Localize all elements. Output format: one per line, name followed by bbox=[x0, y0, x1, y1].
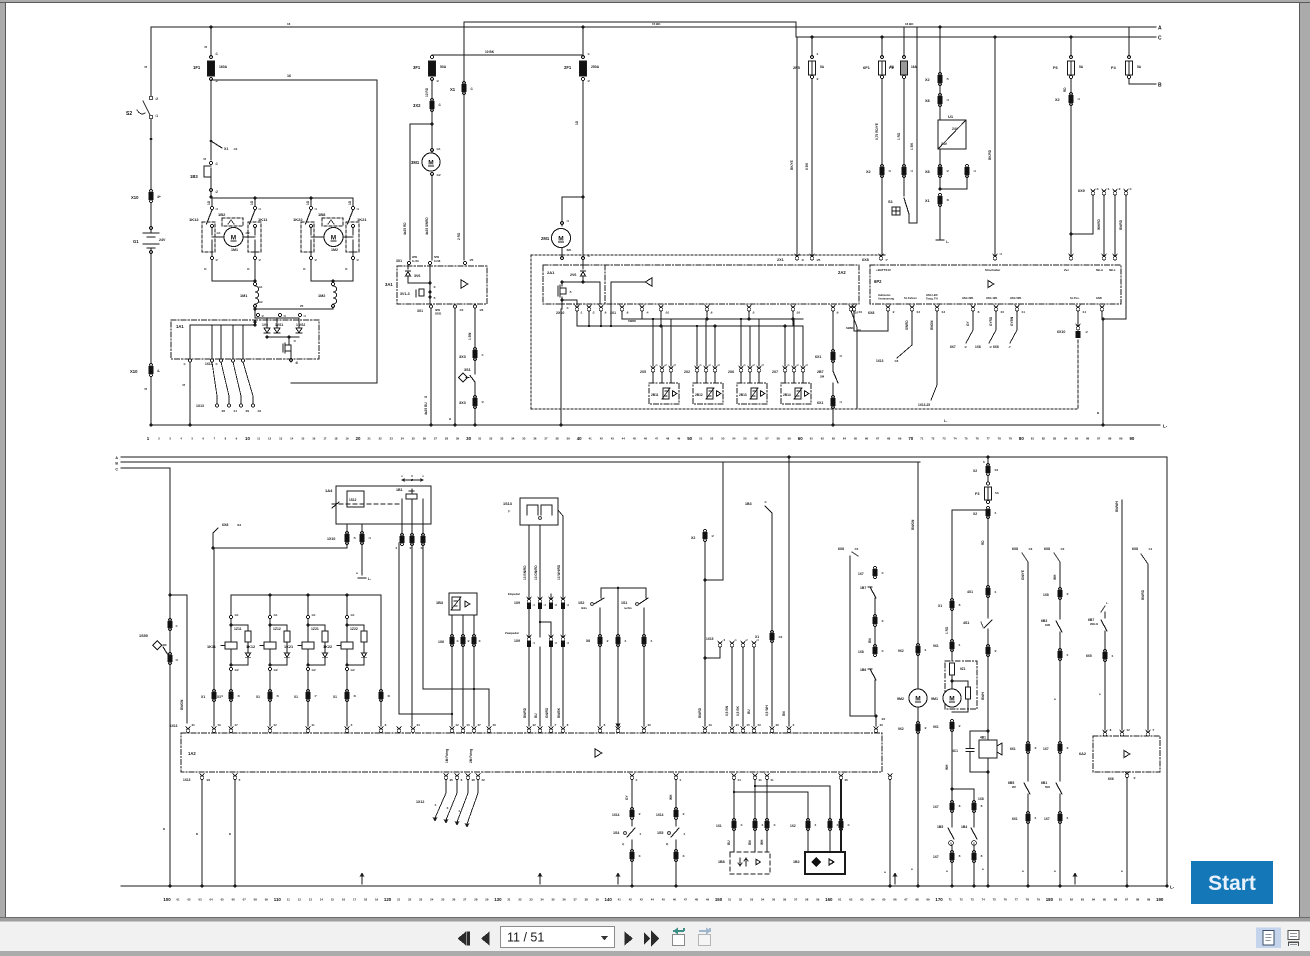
connector X2 :5 / X8 :4 column bbox=[925, 26, 949, 121]
svg-text:1K11: 1K11 bbox=[207, 645, 216, 649]
svg-text:45: 45 bbox=[662, 898, 666, 902]
svg-text::7: :7 bbox=[885, 258, 888, 262]
svg-text:RD: RD bbox=[981, 540, 985, 545]
svg-text:55: 55 bbox=[772, 898, 776, 902]
svg-text::9: :9 bbox=[801, 258, 804, 262]
svg-text:87: 87 bbox=[1097, 437, 1101, 441]
svg-text:M: M bbox=[558, 235, 563, 242]
svg-text:10 RD: 10 RD bbox=[425, 87, 429, 97]
svg-text:58: 58 bbox=[777, 437, 781, 441]
svg-text:4S1: 4S1 bbox=[963, 621, 969, 625]
box 1A4 with 1S12 and 1B1 bbox=[325, 486, 431, 524]
svg-text::2: :2 bbox=[1118, 187, 1121, 191]
svg-text:26: 26 bbox=[423, 437, 427, 441]
svg-text:11: 11 bbox=[287, 898, 290, 902]
diode 3V6 bbox=[405, 265, 420, 283]
svg-text::11: :11 bbox=[1021, 310, 1025, 314]
svg-text::19: :19 bbox=[217, 723, 221, 727]
svg-text:6X8: 6X8 bbox=[838, 547, 844, 551]
connector 4X1 :1 bbox=[967, 585, 997, 618]
svg-text:3V1-3: 3V1-3 bbox=[400, 292, 410, 296]
svg-text::4: :4 bbox=[881, 649, 884, 653]
svg-text:BU: BU bbox=[747, 709, 751, 714]
svg-text:L-: L- bbox=[1163, 424, 1168, 429]
wire bus above steer switches bbox=[601, 587, 646, 727]
bus line to C with jog bbox=[464, 22, 1162, 42]
svg-text:190: 190 bbox=[1156, 897, 1164, 902]
svg-text:S: S bbox=[144, 66, 148, 68]
connectors 1X2 bbox=[790, 818, 850, 830]
svg-text:BN/GN: BN/GN bbox=[911, 519, 915, 530]
svg-text:6X8: 6X8 bbox=[1044, 547, 1050, 551]
svg-text:-10: -10 bbox=[233, 147, 238, 151]
2A2 bottom pins 2X1 :6 etc bbox=[610, 305, 858, 315]
svg-text::3: :3 bbox=[888, 169, 891, 173]
svg-text::2: :2 bbox=[1066, 746, 1069, 750]
svg-text::4: :4 bbox=[973, 169, 976, 173]
svg-text:43: 43 bbox=[640, 898, 644, 902]
sensor 1B3 stub upper bbox=[745, 500, 772, 633]
svg-text:C: C bbox=[1158, 36, 1162, 42]
svg-text:57: 57 bbox=[766, 437, 770, 441]
Start button bbox=[1191, 861, 1273, 904]
svg-text::1: :1 bbox=[994, 511, 997, 515]
svg-text::1: :1 bbox=[1066, 653, 1069, 657]
connector 6X1 :2 and switch 6B5 bbox=[1008, 741, 1037, 887]
svg-text:38: 38 bbox=[585, 898, 589, 902]
svg-text::2: :2 bbox=[467, 639, 470, 643]
svg-text:WH: WH bbox=[669, 794, 673, 800]
svg-text::6: :6 bbox=[626, 311, 629, 315]
svg-text::12: :12 bbox=[273, 723, 277, 727]
svg-text::10: :10 bbox=[665, 311, 669, 315]
svg-text:25: 25 bbox=[441, 898, 445, 902]
relay feed bus y=595 bbox=[231, 594, 381, 597]
controller box 1A1 (dash-dot) bbox=[171, 320, 319, 359]
svg-text::1: :1 bbox=[1034, 816, 1037, 820]
svg-text:X1: X1 bbox=[755, 635, 759, 639]
svg-text:X:: X: bbox=[204, 267, 207, 271]
svg-text:+BATT24V: +BATT24V bbox=[876, 268, 891, 272]
svg-text::A1: :A1 bbox=[311, 613, 316, 617]
svg-text:24V: 24V bbox=[941, 142, 948, 146]
svg-text::6: :6 bbox=[958, 804, 961, 808]
svg-text:34: 34 bbox=[511, 437, 515, 441]
svg-text::4: :4 bbox=[456, 639, 459, 643]
svg-text:0,75 RD/YE: 0,75 RD/YE bbox=[875, 123, 879, 140]
toolbar go-back icon bbox=[673, 928, 685, 946]
wire 3A1 to L- 4x25 BU bbox=[424, 308, 433, 427]
wire: 1L loop to x=377 bbox=[211, 74, 377, 383]
svg-text:51: 51 bbox=[699, 437, 703, 441]
svg-text:M: M bbox=[949, 695, 954, 702]
svg-text:BN/RD: BN/RD bbox=[698, 707, 702, 718]
wire 6X8/12 feeder bbox=[212, 523, 348, 550]
svg-text:X1: X1 bbox=[217, 695, 221, 699]
svg-text::1: :1 bbox=[836, 823, 839, 827]
svg-text:1A4: 1A4 bbox=[325, 488, 333, 493]
wire bracket 6X8 :15 bbox=[838, 547, 885, 726]
svg-text::2: :2 bbox=[816, 77, 819, 81]
svg-text::1: :1 bbox=[1107, 187, 1110, 191]
svg-text::1: :1 bbox=[1066, 816, 1069, 820]
svg-text:89: 89 bbox=[1119, 437, 1123, 441]
connectors 1B1 pins 1 2 3 bbox=[395, 524, 426, 550]
wire B drop x=723 bbox=[704, 462, 724, 582]
main controller 1A2 (dash-dot) bbox=[181, 733, 882, 772]
svg-text:1X7: 1X7 bbox=[1043, 747, 1049, 751]
svg-text:2M Fahrg: 2M Fahrg bbox=[469, 749, 473, 763]
svg-text:2F1: 2F1 bbox=[564, 65, 572, 70]
svg-text:32: 32 bbox=[518, 898, 522, 902]
svg-text::A1: :A1 bbox=[258, 285, 263, 289]
svg-text:9X1: 9X1 bbox=[933, 725, 939, 729]
svg-text::9: :9 bbox=[836, 311, 839, 315]
fuse F2 16A bbox=[889, 27, 918, 167]
svg-text::25: :25 bbox=[816, 258, 821, 262]
DC-DC converter U1 24V/24V bbox=[938, 114, 966, 149]
svg-text::4: :4 bbox=[1129, 187, 1132, 191]
svg-text:2M/L41: 2M/L41 bbox=[1090, 623, 1099, 626]
svg-text:100: 100 bbox=[163, 897, 171, 902]
svg-text:15: 15 bbox=[301, 437, 305, 441]
fuse 1F1 160A bbox=[193, 52, 228, 83]
svg-text:St/schalter: St/schalter bbox=[985, 268, 1001, 272]
svg-text:21: 21 bbox=[368, 437, 372, 441]
svg-text::16: :16 bbox=[1028, 547, 1033, 551]
svg-text::21: :21 bbox=[191, 723, 195, 727]
svg-text:1X14: 1X14 bbox=[612, 813, 620, 817]
svg-text:2 RD: 2 RD bbox=[457, 232, 461, 240]
svg-text:2vz: 2vz bbox=[1064, 268, 1069, 272]
svg-text:BU: BU bbox=[857, 328, 861, 332]
wire 6X8 :11 feeder bbox=[1132, 547, 1153, 730]
svg-text:6X8: 6X8 bbox=[222, 523, 228, 527]
svg-text:27: 27 bbox=[434, 437, 438, 441]
svg-text:1K21: 1K21 bbox=[357, 217, 367, 222]
svg-text::5: :5 bbox=[569, 290, 572, 294]
svg-text::5: :5 bbox=[353, 536, 356, 540]
contact K1 :10 on 1F1 branch bbox=[210, 140, 238, 151]
svg-text:2/W: 2/W bbox=[412, 255, 417, 259]
svg-text::1: :1 bbox=[650, 639, 653, 643]
svg-text:1A2: 1A2 bbox=[188, 751, 196, 756]
branch to X1 :6 bbox=[938, 510, 988, 642]
svg-text:35: 35 bbox=[551, 898, 555, 902]
svg-text:4x25 RD: 4x25 RD bbox=[403, 222, 407, 235]
svg-text:BN: BN bbox=[868, 638, 872, 643]
svg-text::28: :28 bbox=[471, 778, 475, 782]
wire A drop x=789 bbox=[782, 457, 789, 726]
svg-text:2M: 2M bbox=[1012, 785, 1016, 789]
svg-text:GN/RD: GN/RD bbox=[545, 707, 549, 718]
svg-text:6X8: 6X8 bbox=[993, 345, 999, 349]
svg-text:1B3: 1B3 bbox=[190, 174, 198, 179]
svg-text:77: 77 bbox=[987, 437, 991, 441]
svg-text::1: :1 bbox=[816, 52, 819, 56]
svg-text::23: :23 bbox=[881, 717, 885, 721]
svg-text::A1: :A1 bbox=[436, 147, 441, 151]
svg-text::6: :6 bbox=[604, 311, 607, 315]
svg-text:02: 02 bbox=[187, 898, 191, 902]
svg-text::A2: :A2 bbox=[234, 668, 239, 672]
wire to 6X7 :2 bbox=[950, 311, 973, 349]
svg-text:1X8: 1X8 bbox=[975, 345, 981, 349]
wiring 1A2 outputs to 1B8/1B2 bbox=[727, 780, 841, 845]
bottom bus line A bbox=[115, 456, 1167, 461]
svg-text::23: :23 bbox=[879, 723, 883, 727]
svg-text:a: a bbox=[163, 827, 165, 831]
svg-text::1: :1 bbox=[438, 103, 441, 107]
svg-text::4: :4 bbox=[764, 500, 767, 504]
svg-text:120: 120 bbox=[384, 897, 392, 902]
svg-text::4: :4 bbox=[999, 252, 1002, 256]
svg-text:6B1: 6B1 bbox=[1041, 781, 1047, 785]
svg-text:6B5: 6B5 bbox=[1008, 781, 1014, 785]
svg-text::26: :26 bbox=[221, 409, 225, 413]
connector X1 :4 on 6X8-12 wire bbox=[201, 548, 223, 726]
svg-text:BN: BN bbox=[782, 711, 786, 716]
svg-text:X2: X2 bbox=[691, 536, 695, 540]
connector 9X1 :1 bbox=[933, 639, 961, 661]
wire to 1X13-25 bbox=[918, 311, 937, 407]
svg-text:08: 08 bbox=[254, 898, 258, 902]
connector row 2X1 top bbox=[777, 254, 821, 262]
svg-text:67: 67 bbox=[904, 898, 908, 902]
svg-text:Ansteuerung: Ansteuerung bbox=[878, 296, 894, 300]
svg-text:a: a bbox=[1097, 411, 1099, 415]
svg-text::26: :26 bbox=[449, 778, 453, 782]
connector X10 :4- bbox=[130, 363, 160, 376]
svg-text::0: :0 bbox=[293, 339, 296, 343]
svg-text:24: 24 bbox=[430, 898, 434, 902]
svg-text:1F1: 1F1 bbox=[193, 65, 201, 70]
svg-text:11 / 51: 11 / 51 bbox=[507, 931, 544, 945]
bridge arm contact 4 bbox=[345, 198, 359, 281]
svg-text:28/21: 28/21 bbox=[435, 311, 442, 315]
svg-text::2: :2 bbox=[1133, 776, 1136, 780]
svg-text::10: :10 bbox=[459, 308, 464, 312]
svg-text:X8: X8 bbox=[925, 170, 930, 174]
fuse 2F5 5A bbox=[793, 36, 825, 255]
svg-text:S: S bbox=[144, 388, 148, 390]
svg-text:X1: X1 bbox=[450, 87, 456, 92]
fuse 3F1 50A bbox=[413, 55, 447, 97]
svg-text:21: 21 bbox=[397, 898, 401, 902]
wire 3A1 pin :10 to L- bbox=[448, 308, 457, 427]
svg-text::2: :2 bbox=[155, 97, 158, 101]
svg-text::6: :6 bbox=[980, 804, 983, 808]
svg-text:6X8: 6X8 bbox=[1132, 547, 1138, 551]
svg-text:65: 65 bbox=[854, 437, 858, 441]
svg-text:BN/RD: BN/RD bbox=[1141, 589, 1145, 600]
svg-text:1 BN: 1 BN bbox=[468, 332, 472, 340]
svg-text::2: :2 bbox=[587, 79, 590, 83]
svg-text:13: 13 bbox=[309, 898, 313, 902]
svg-text::1: :1 bbox=[215, 52, 218, 56]
svg-text:50A: 50A bbox=[440, 65, 447, 69]
wire line C to 6P2 :4 bbox=[988, 36, 1002, 261]
svg-text::2: :2 bbox=[711, 534, 714, 538]
svg-text::1: :1 bbox=[470, 87, 473, 91]
svg-text:2|: 2| bbox=[666, 842, 668, 846]
field coil 1M1 bbox=[240, 283, 263, 308]
svg-text:5A: 5A bbox=[1137, 65, 1142, 69]
svg-text::42: :42 bbox=[257, 409, 261, 413]
motor 1M1 with brake 1B2 bbox=[212, 212, 255, 252]
svg-text:5M1: 5M1 bbox=[1045, 785, 1051, 789]
connector X8 :2 bbox=[925, 149, 949, 191]
svg-text::10: :10 bbox=[858, 310, 862, 314]
svg-text::2: :2 bbox=[258, 258, 261, 262]
svg-text::15: :15 bbox=[746, 723, 750, 727]
svg-text:46: 46 bbox=[644, 437, 648, 441]
svg-text::2: :2 bbox=[1066, 592, 1069, 596]
svg-text::6: :6 bbox=[237, 694, 240, 698]
svg-text::3: :3 bbox=[478, 639, 481, 643]
svg-text::2: :2 bbox=[1085, 330, 1088, 334]
svg-text:64: 64 bbox=[871, 898, 875, 902]
svg-text:37: 37 bbox=[544, 437, 548, 441]
wire 6X8 :10 feeder bbox=[1044, 547, 1065, 590]
svg-text::1: :1 bbox=[481, 353, 484, 357]
svg-text:0,5 WH: 0,5 WH bbox=[765, 705, 769, 716]
wire 2F1 feeder x=583 bbox=[581, 26, 590, 59]
svg-text::4: :4 bbox=[356, 207, 359, 211]
sensor connector row 2X5 2X2 2X6 2X7 bbox=[640, 364, 808, 383]
toolbar last-page button bbox=[644, 931, 660, 947]
svg-text:BN/BK: BN/BK bbox=[557, 707, 561, 718]
switch 1B4 bbox=[961, 811, 977, 853]
svg-text:62: 62 bbox=[849, 898, 853, 902]
svg-text:16 BK: 16 BK bbox=[905, 22, 914, 26]
svg-text:1B2: 1B2 bbox=[793, 860, 800, 864]
svg-text:X10: X10 bbox=[131, 195, 139, 200]
svg-text:1K22: 1K22 bbox=[293, 217, 303, 222]
dashed contact box 1K21 bbox=[346, 222, 359, 252]
svg-text:S: S bbox=[424, 396, 428, 398]
svg-text:X1: X1 bbox=[294, 695, 298, 699]
wire B corner x=920 to 9M2 bbox=[911, 462, 920, 888]
svg-text:HSG 2M1: HSG 2M1 bbox=[962, 296, 974, 300]
relay 1K11 with 1Z11 bbox=[207, 595, 251, 726]
svg-text:1B7: 1B7 bbox=[860, 586, 866, 590]
svg-text:WH: WH bbox=[1053, 574, 1057, 580]
toolbar go-forward icon (disabled) bbox=[699, 928, 712, 946]
svg-text:X2: X2 bbox=[973, 512, 977, 516]
svg-text:24: 24 bbox=[401, 437, 405, 441]
svg-text:2X1: 2X1 bbox=[777, 258, 784, 262]
svg-text:a: a bbox=[448, 418, 452, 420]
fuse F3 5A bbox=[975, 487, 1000, 504]
svg-text:1X13: 1X13 bbox=[183, 778, 191, 782]
6P2 bottom pin row bbox=[852, 305, 1087, 315]
svg-text:3X3: 3X3 bbox=[459, 355, 466, 359]
svg-text::6: :6 bbox=[958, 603, 961, 607]
switch 1B5 bbox=[937, 811, 954, 853]
svg-text:F6: F6 bbox=[1053, 65, 1058, 70]
svg-text:42: 42 bbox=[600, 437, 604, 441]
sensor boxes 2B11-2B14 bbox=[649, 383, 811, 404]
svg-text:RD: RD bbox=[1063, 87, 1067, 92]
svg-text:24V: 24V bbox=[952, 127, 959, 131]
svg-text:33: 33 bbox=[500, 437, 504, 441]
svg-text:25: 25 bbox=[300, 304, 304, 308]
svg-text:a: a bbox=[229, 832, 231, 836]
svg-text:X2: X2 bbox=[925, 78, 930, 82]
svg-text::24: :24 bbox=[735, 723, 739, 727]
wires pedal to 1A2 bbox=[523, 647, 563, 726]
wire X1 :1 feeder x=464 bbox=[450, 22, 473, 260]
svg-text:50: 50 bbox=[687, 436, 692, 441]
svg-text:6X1: 6X1 bbox=[815, 355, 821, 359]
svg-text:X8: X8 bbox=[925, 99, 930, 103]
wire bracket SWBU bbox=[846, 311, 888, 331]
svg-text::8: :8 bbox=[353, 694, 356, 698]
wire A corner right x=1167 bbox=[1166, 457, 1169, 888]
motor 9M2 bbox=[897, 689, 927, 734]
svg-text:56: 56 bbox=[783, 898, 787, 902]
svg-text::6: :6 bbox=[980, 854, 983, 858]
wire: coil join bus bbox=[254, 304, 334, 318]
field coil 1M2 bbox=[318, 283, 337, 308]
svg-text:17: 17 bbox=[323, 437, 327, 441]
svg-text:1X8: 1X8 bbox=[978, 797, 984, 801]
svg-text::1: :1 bbox=[624, 639, 627, 643]
toolbar page number combobox bbox=[501, 927, 615, 948]
svg-text:76: 76 bbox=[1004, 898, 1008, 902]
continuous view icon bbox=[1288, 931, 1299, 946]
svg-text:1B8: 1B8 bbox=[318, 212, 326, 217]
control box 6P2 (dash-dot) bbox=[870, 265, 1121, 304]
svg-text:130: 130 bbox=[494, 897, 502, 902]
svg-text:6X1: 6X1 bbox=[1010, 747, 1016, 751]
svg-text:4B1: 4B1 bbox=[980, 736, 986, 740]
svg-text::16: :16 bbox=[994, 468, 998, 472]
connector block 1X15 bbox=[705, 637, 759, 726]
connector X2 :4 under F2 bbox=[902, 164, 913, 196]
svg-text:68: 68 bbox=[887, 437, 891, 441]
svg-text:6X6: 6X6 bbox=[1108, 777, 1114, 781]
svg-text:42: 42 bbox=[629, 898, 633, 902]
connector 6X10 :2 bbox=[1057, 311, 1088, 338]
svg-text:67: 67 bbox=[876, 437, 880, 441]
svg-text:1X13: 1X13 bbox=[170, 724, 178, 728]
svg-text:1B1: 1B1 bbox=[396, 488, 403, 492]
svg-text:6 BK: 6 BK bbox=[805, 162, 809, 170]
MOSFET 3V1-3 bbox=[400, 265, 436, 304]
motor 1M2 with brake 1B8 bbox=[311, 212, 353, 252]
svg-text::2: :2 bbox=[989, 345, 992, 349]
svg-text::11: :11 bbox=[1148, 547, 1153, 551]
wire 9X2 column (from B) bbox=[898, 643, 927, 655]
svg-text::4: :4 bbox=[314, 207, 317, 211]
svg-text::A1: :A1 bbox=[216, 231, 221, 235]
wire pin to L- x=890 bbox=[884, 780, 892, 888]
svg-text:5A: 5A bbox=[820, 65, 825, 69]
svg-text:1S50: 1S50 bbox=[139, 634, 148, 638]
svg-text:1X8: 1X8 bbox=[858, 650, 864, 654]
svg-text::A1: :A1 bbox=[350, 613, 355, 617]
svg-text:41: 41 bbox=[589, 437, 593, 441]
svg-text:58: 58 bbox=[805, 898, 809, 902]
wire F3 column x=988 bbox=[983, 457, 988, 466]
svg-text::6: :6 bbox=[276, 694, 279, 698]
svg-text:1X10: 1X10 bbox=[327, 537, 335, 541]
svg-text:L-: L- bbox=[1170, 885, 1175, 890]
svg-text:10: 10 bbox=[245, 436, 250, 441]
svg-text::A2: :A2 bbox=[258, 300, 263, 304]
